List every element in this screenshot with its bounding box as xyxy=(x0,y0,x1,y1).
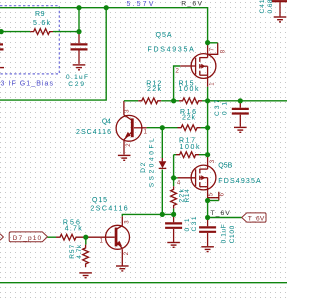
wire T row left xyxy=(122,214,173,216)
junction gate riser R12/R15 xyxy=(171,98,176,103)
svg-text:5.6k: 5.6k xyxy=(33,20,51,27)
wire stub to pin 6 xyxy=(208,200,219,202)
hierarchical label D7_p10 xyxy=(9,232,47,242)
junction Q15 base xyxy=(83,235,88,240)
wire Q5B drain to T node xyxy=(207,201,209,218)
ground below C100 xyxy=(201,247,214,252)
svg-text:22k: 22k xyxy=(147,86,162,93)
label fragment at left edge xyxy=(0,234,3,240)
resistor R57 xyxy=(83,245,89,268)
ground below C31 xyxy=(167,243,180,248)
svg-text:0.1: 0.1 xyxy=(222,102,229,115)
capacitor C37 xyxy=(239,101,241,108)
svg-text:2SC4116: 2SC4116 xyxy=(76,129,111,136)
svg-text:4.7k: 4.7k xyxy=(65,225,83,232)
svg-text:2SC4116: 2SC4116 xyxy=(90,206,127,213)
capacitor C100 xyxy=(207,219,209,226)
junction top x106 xyxy=(104,5,109,10)
wire Q5B gate stub xyxy=(174,177,178,179)
svg-text:R_6V: R_6V xyxy=(181,0,202,7)
resistor R16 xyxy=(178,125,201,131)
junction C31 top xyxy=(171,212,176,217)
wire R17 to main vertical xyxy=(199,154,208,156)
mosfet Q5B FDS4935A xyxy=(178,157,261,198)
junction D2 top xyxy=(160,125,165,130)
wire top bus xyxy=(0,8,208,43)
junction D2 bottom xyxy=(160,212,165,217)
junction R9 left xyxy=(0,29,4,34)
wire D2 branch upper xyxy=(161,128,163,158)
ground below C29 xyxy=(73,65,86,70)
ground below Q15 xyxy=(116,266,129,271)
transistor Q4 2SC4116 xyxy=(76,101,147,155)
svg-text:3 IF G1_Bias: 3 IF G1_Bias xyxy=(1,80,54,87)
wire gate riser of Q5A xyxy=(174,66,181,101)
svg-text:C41: C41 xyxy=(259,0,266,14)
junction Q5A drain xyxy=(205,40,210,45)
resistor R56 xyxy=(56,234,86,240)
svg-text:R14: R14 xyxy=(184,189,191,203)
diode D2 SS2040FL xyxy=(140,138,166,187)
wire D7 to R56 xyxy=(47,236,56,238)
resistor R9 xyxy=(30,29,53,35)
svg-text:0.1uF: 0.1uF xyxy=(221,224,228,243)
svg-text:R57: R57 xyxy=(69,244,76,258)
wire T node to global label xyxy=(208,217,242,219)
wire R9 row left xyxy=(0,31,30,33)
transistor Q15 2SC4116 xyxy=(86,197,130,266)
ground below R57 xyxy=(79,273,92,278)
svg-text:Q5B: Q5B xyxy=(218,163,232,170)
svg-text:C31: C31 xyxy=(191,216,198,231)
junction main R16 row xyxy=(205,125,210,130)
svg-text:100k: 100k xyxy=(180,144,201,151)
wire R16 to main vertical xyxy=(201,127,208,129)
wire between R12 and R15 xyxy=(161,100,179,102)
wire main vertical Q5A to Q5B xyxy=(207,87,209,157)
ground below Q4 xyxy=(118,155,131,160)
svg-text:R9: R9 xyxy=(35,11,45,18)
svg-text:4.7k: 4.7k xyxy=(76,244,83,259)
svg-text:Q4: Q4 xyxy=(102,119,111,126)
svg-text:C37: C37 xyxy=(214,99,221,116)
wire stub to pin 8 xyxy=(208,42,218,44)
junction Q5B drain xyxy=(205,198,210,203)
wire Q4 base row xyxy=(147,127,178,129)
wire R14 to T row xyxy=(173,209,175,215)
svg-text:C100: C100 xyxy=(229,225,236,243)
junction T node xyxy=(205,215,210,220)
svg-text:0.68: 0.68 xyxy=(267,0,274,14)
svg-text:0.1uF: 0.1uF xyxy=(66,74,88,81)
svg-text:Q5A: Q5A xyxy=(156,32,172,39)
junction C37 top xyxy=(238,98,243,103)
wire R15 row right to edge xyxy=(202,100,287,102)
pins 5/6 tie loop of Q5B xyxy=(208,192,219,198)
capacitor fragment at left edge xyxy=(0,44,4,49)
wire bottom bus xyxy=(0,282,287,284)
ground below C37 xyxy=(234,127,247,132)
wire R9 row right xyxy=(53,31,79,33)
wire riser x106 xyxy=(0,8,106,100)
pins 7/8 tie loop of Q5A xyxy=(208,43,218,55)
wire R14 branch top xyxy=(173,178,175,186)
capacitor C41 partial top right xyxy=(272,0,288,2)
svg-text:D7_p10: D7_p10 xyxy=(13,235,42,242)
svg-text:FDS4935A: FDS4935A xyxy=(218,178,261,185)
capacitor C31 xyxy=(173,216,175,222)
ground fragment at left edge xyxy=(0,67,4,69)
wire D2 cathode down xyxy=(161,170,163,215)
resistor R17 xyxy=(176,152,199,158)
junction main R17 row xyxy=(205,152,210,157)
resistor R12 xyxy=(138,98,161,104)
wire riser R17 to Q5B gate xyxy=(173,155,175,178)
svg-text:100k: 100k xyxy=(179,86,200,93)
svg-text:0.1: 0.1 xyxy=(184,218,191,231)
resistor R15 xyxy=(179,98,202,104)
mosfet Q5A FDS4935A xyxy=(148,32,216,87)
wire R17 row xyxy=(174,154,176,156)
wire riser x79 xyxy=(78,8,80,32)
junction Q5B gate xyxy=(171,175,176,180)
junction top x79 xyxy=(76,5,81,10)
capacitor C29 xyxy=(78,34,80,44)
junction main R15 row xyxy=(205,98,210,103)
wire Q4 collector row xyxy=(124,100,138,102)
global label T_6V xyxy=(242,213,266,223)
wire R57 stub xyxy=(85,237,87,244)
svg-text:22k: 22k xyxy=(182,114,196,121)
svg-text:Q15: Q15 xyxy=(92,197,107,204)
junction C29 top xyxy=(76,29,81,34)
svg-text:T_6V: T_6V xyxy=(211,210,231,217)
resistor R14 xyxy=(171,186,177,208)
dashed selection box around R9 xyxy=(0,6,59,74)
svg-text:T_6V: T_6V xyxy=(248,215,265,222)
ground below C41 xyxy=(274,17,287,22)
svg-text:C29: C29 xyxy=(68,81,84,88)
